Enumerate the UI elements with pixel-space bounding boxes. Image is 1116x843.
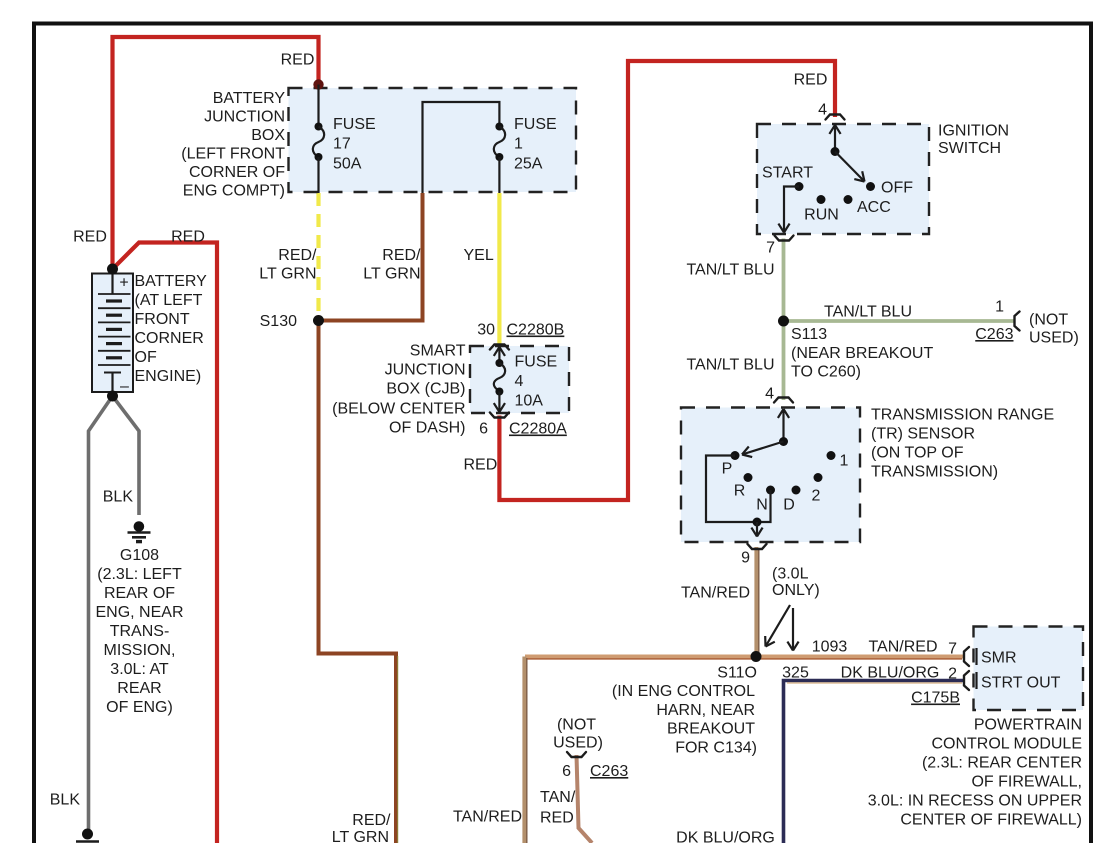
connector C175B pin7 arc at PCM [964,647,969,666]
svg-text:TO C260): TO C260) [791,364,861,381]
svg-text:JUNCTION: JUNCTION [204,109,285,126]
label S110 [612,665,757,757]
svg-text:FUSE: FUSE [333,116,376,133]
svg-text:(2.3L: REAR CENTER: (2.3L: REAR CENTER [922,755,1082,772]
ground at page bottom left [76,829,99,842]
svg-text:+: + [119,275,128,292]
svg-text:P: P [722,461,733,478]
svg-text:OF ENG): OF ENG) [106,699,173,716]
svg-text:30: 30 [477,322,495,339]
svg-text:BREAKOUT: BREAKOUT [667,721,755,738]
svg-text:LT GRN: LT GRN [363,266,420,283]
svg-text:(NEAR BREAKOUT: (NEAR BREAKOUT [791,345,933,362]
svg-text:FRONT: FRONT [135,311,190,328]
svg-text:D: D [783,497,795,514]
svg-text:6: 6 [562,763,571,780]
label G108 ground [95,547,183,716]
wire RED/LT GRN fuse output to S130 [322,193,423,321]
wire TAN/RED stub from C263 pin6 [577,755,593,843]
svg-text:4: 4 [818,102,827,119]
svg-text:BLK: BLK [103,489,134,506]
svg-text:G108: G108 [120,547,159,564]
node S113 [778,316,789,327]
svg-text:MISSION,: MISSION, [103,642,175,659]
svg-text:(TR) SENSOR: (TR) SENSOR [871,426,975,443]
svg-text:CONTROL MODULE: CONTROL MODULE [931,736,1082,753]
svg-text:STRT OUT: STRT OUT [981,675,1061,692]
svg-text:DK BLU/ORG: DK BLU/ORG [676,830,775,843]
connector C2280B arc at SJB top [490,345,509,350]
svg-text:YEL: YEL [464,247,494,264]
svg-text:POWERTRAIN: POWERTRAIN [974,717,1082,734]
label transmission range sensor [871,407,1054,481]
svg-text:TAN/RED: TAN/RED [868,639,937,656]
svg-text:LT GRN: LT GRN [332,829,389,843]
svg-text:(NOT: (NOT [557,717,596,734]
svg-text:7: 7 [766,240,775,257]
svg-text:DK BLU/ORG: DK BLU/ORG [841,665,940,682]
ignition switch box [757,124,929,234]
svg-text:OFF: OFF [881,180,913,197]
svg-text:(LEFT FRONT: (LEFT FRONT [181,146,285,163]
label battery location [135,273,208,385]
fuse F1 lead and element [423,102,506,193]
svg-text:RED: RED [281,52,315,69]
svg-text:FOR C134): FOR C134) [675,740,757,757]
svg-text:START: START [762,165,813,182]
svg-text:7: 7 [948,641,957,658]
svg-text:OF FIREWALL,: OF FIREWALL, [971,774,1082,791]
svg-text:SMART: SMART [410,343,466,360]
ground G108 [128,521,151,541]
svg-text:RED: RED [794,72,828,89]
svg-text:2: 2 [948,666,957,683]
svg-text:BOX: BOX [251,127,285,144]
svg-text:C175B: C175B [911,690,960,707]
wire RED battery to starter (runs off page bottom) [113,243,218,843]
fuse F17 lead and element [313,85,324,194]
svg-text:USED): USED) [1029,330,1079,347]
wire DK BLU/ORG PCM pin2 to bottom of page [784,681,964,843]
svg-text:RED/: RED/ [352,812,391,829]
svg-text:CENTER OF FIREWALL): CENTER OF FIREWALL) [900,812,1082,829]
svg-text:FUSE: FUSE [515,354,558,371]
svg-text:3.0L: IN RECESS ON UPPER: 3.0L: IN RECESS ON UPPER [868,793,1082,810]
svg-text:ENG, NEAR: ENG, NEAR [95,604,183,621]
transmission range sensor box [681,408,860,543]
svg-text:(3.0L: (3.0L [772,566,809,583]
connector C175B pin2 arc at PCM [964,671,969,690]
svg-text:10A: 10A [515,393,544,410]
svg-text:CORNER OF: CORNER OF [189,164,285,181]
svg-text:LT GRN: LT GRN [259,266,316,283]
wire TAN/RED horizontal through S110 to PCM pin7 [525,655,963,659]
svg-text:TAN/LT BLU: TAN/LT BLU [824,304,912,321]
battery junction box [289,88,577,192]
svg-text:ONLY): ONLY) [772,582,820,599]
wire YEL fuse1 to smart junction box [497,193,501,347]
svg-text:ACC: ACC [857,199,891,216]
svg-text:ENG COMPT): ENG COMPT) [183,183,285,200]
wire TAN/LT BLU ignition pin7 to S113 [782,239,786,322]
svg-text:OF DASH): OF DASH) [389,420,465,437]
label battery junction box [181,90,285,200]
node battery positive [107,264,118,275]
svg-text:HARN, NEAR: HARN, NEAR [656,702,755,719]
svg-text:TAN/LT BLU: TAN/LT BLU [686,357,774,374]
arrows from 3.0L ONLY note [765,605,798,651]
svg-text:RED/: RED/ [382,247,421,264]
wire TAN/RED TR pin9 to S110 [754,547,758,654]
fuse F4 with arrows [494,347,505,412]
powertrain control module box [974,627,1084,711]
svg-text:R: R [734,483,746,500]
label powertrain control module [868,717,1082,829]
svg-text:(2.3L: LEFT: (2.3L: LEFT [97,566,182,583]
svg-text:TRANS-: TRANS- [110,623,170,640]
TR sensor internals [706,409,836,537]
svg-text:C263: C263 [975,326,1013,343]
wire TAN/LT BLU S113 to C263 pin1 [784,319,1016,323]
svg-text:JUNCTION: JUNCTION [385,362,466,379]
wire RED fuse4 to ignition switch [499,61,835,500]
svg-text:RED/: RED/ [278,247,317,264]
svg-text:25A: 25A [514,156,543,173]
svg-text:TAN/RED: TAN/RED [453,809,522,826]
battery internal plates [98,274,131,393]
svg-text:IGNITION: IGNITION [938,123,1009,140]
svg-text:9: 9 [741,550,750,567]
svg-text:4: 4 [515,373,524,390]
svg-text:17: 17 [333,136,351,153]
connector C2280A arc at SJB bottom [490,413,509,418]
svg-text:SMR: SMR [981,650,1017,667]
svg-text:RED: RED [464,457,498,474]
svg-text:OF: OF [135,349,157,366]
svg-text:REAR OF: REAR OF [104,585,175,602]
wire RED/LT GRN dashed fuse17 to S130 [316,193,320,316]
svg-text:S130: S130 [260,313,297,330]
wire TAN/LT BLU S113 to TR sensor pin4 [782,321,786,400]
svg-text:TRANSMISSION): TRANSMISSION) [871,464,998,481]
svg-text:325: 325 [782,665,809,682]
connector C263 pin6 arc bottom area [567,752,586,757]
svg-text:6: 6 [479,421,488,438]
node S110 [751,651,762,662]
svg-text:TAN/: TAN/ [540,789,576,806]
svg-text:(AT LEFT: (AT LEFT [135,292,203,309]
wire RED battery to battery junction box [113,37,319,269]
svg-text:TRANSMISSION RANGE: TRANSMISSION RANGE [871,407,1054,424]
svg-text:1093: 1093 [812,639,848,656]
svg-text:RUN: RUN [804,207,839,224]
svg-text:C263: C263 [590,763,628,780]
svg-text:TAN/RED: TAN/RED [681,585,750,602]
wire BLK battery to G108 [113,396,140,515]
svg-text:S11O: S11O [717,665,757,682]
svg-text:RED: RED [73,229,107,246]
svg-text:1: 1 [995,299,1004,316]
wire TAN/RED left branch down off page [522,657,526,843]
svg-text:SWITCH: SWITCH [938,140,1001,157]
svg-text:REAR: REAR [117,680,161,697]
connector pin4 arc at TR sensor top [774,398,793,403]
svg-text:–: – [120,378,129,395]
svg-text:2: 2 [812,488,821,505]
svg-text:1: 1 [840,453,849,470]
svg-text:RED: RED [171,229,205,246]
svg-text:N: N [756,497,768,514]
connector pin7 arc at ignition switch bottom [775,236,794,241]
node S130 [313,315,324,326]
svg-text:BOX (CJB): BOX (CJB) [386,381,465,398]
svg-text:C2280B: C2280B [507,322,565,339]
wire BLK battery to page bottom ground [89,396,113,834]
svg-text:C2280A: C2280A [509,421,567,438]
svg-text:S113: S113 [791,326,827,343]
svg-text:(BELOW CENTER: (BELOW CENTER [332,401,465,418]
svg-text:CORNER: CORNER [135,330,204,347]
svg-text:(ON TOP OF: (ON TOP OF [871,445,964,462]
svg-text:TAN/LT BLU: TAN/LT BLU [686,262,774,279]
svg-text:BATTERY: BATTERY [213,90,286,107]
svg-text:BATTERY: BATTERY [135,273,208,290]
ignition switch internals [778,125,875,233]
node at BJB top [313,79,323,89]
node battery negative [107,391,118,402]
svg-text:1: 1 [514,136,523,153]
battery box [92,274,133,393]
connector pin4 arc at ignition switch top [826,115,845,120]
connector pin9 arc at TR sensor bottom [748,544,767,549]
svg-text:BLK: BLK [50,792,81,809]
svg-text:3.0L: AT: 3.0L: AT [110,661,169,678]
svg-text:USED): USED) [553,735,603,752]
svg-text:(IN ENG CONTROL: (IN ENG CONTROL [612,683,755,700]
svg-text:4: 4 [765,386,774,403]
svg-text:50A: 50A [333,156,362,173]
svg-text:(NOT: (NOT [1029,312,1068,329]
wire RED/LT GRN S130 down and off page [319,324,397,843]
svg-text:ENGINE): ENGINE) [135,368,202,385]
label smart junction box [332,343,466,437]
svg-text:FUSE: FUSE [514,116,557,133]
connector C263 pin1 arc [1015,312,1020,331]
svg-text:RED: RED [540,810,574,827]
smart junction box [470,346,569,413]
